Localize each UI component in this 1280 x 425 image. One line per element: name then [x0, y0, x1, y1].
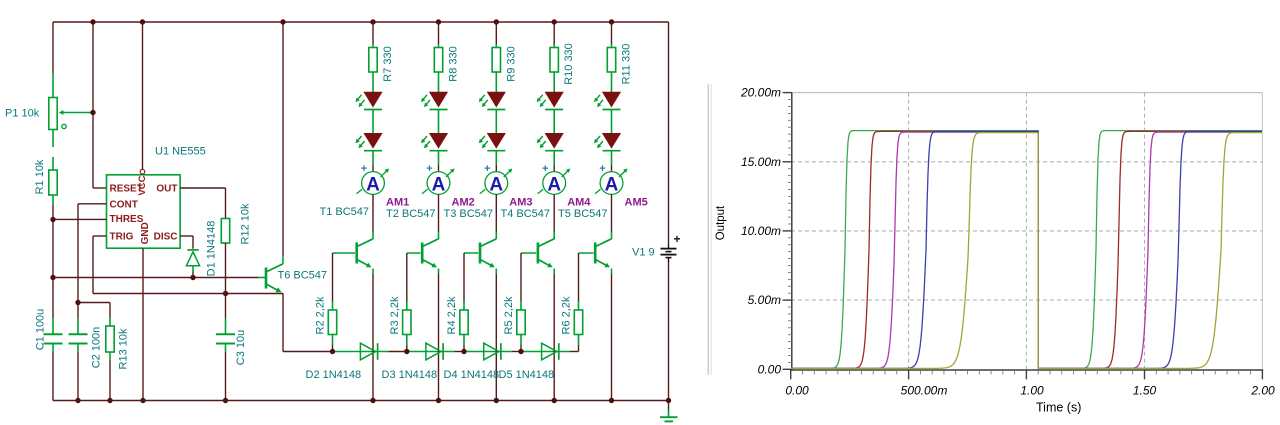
- wire C2 node to R13: [78, 303, 110, 327]
- junction dot top rail column 2: [436, 19, 441, 24]
- diode D1 1N4148: [186, 250, 199, 277]
- resistor R2: [328, 310, 336, 335]
- wire ammeter to T5 collector: [611, 194, 613, 239]
- resistor R4: [460, 310, 468, 335]
- wire DISC pin to D1: [180, 236, 193, 249]
- wire diode row: [283, 351, 579, 353]
- resistor R3: [403, 310, 411, 335]
- junction dot wiper: [90, 110, 95, 115]
- label AM4: [567, 197, 591, 209]
- pin label VCC: [137, 175, 148, 195]
- junction dot diode row R5: [518, 349, 523, 354]
- junction dot diode row R3: [404, 349, 409, 354]
- svg-text:A: A: [547, 174, 561, 195]
- junction dot GND bottom: [140, 398, 145, 403]
- junction dot bottom rail column 2: [436, 398, 441, 403]
- svg-text:AM3: AM3: [509, 197, 532, 209]
- label D2 1N4148: [306, 369, 362, 381]
- wire left rail down to P1: [52, 22, 54, 98]
- svg-text:15.00m: 15.00m: [741, 155, 781, 169]
- label D3 1N4148: [382, 369, 438, 381]
- svg-text:CONT: CONT: [110, 199, 138, 210]
- chart y-axis labels: [740, 86, 781, 377]
- chart axes and ticks: [783, 93, 1264, 380]
- ammeter AM1: [357, 163, 390, 195]
- label R13 10k: [118, 328, 130, 369]
- svg-text:R7 330: R7 330: [382, 46, 394, 81]
- transistor T1 BC547: [355, 239, 373, 267]
- svg-text:A: A: [432, 174, 446, 195]
- wire R11 to LED: [611, 72, 613, 92]
- svg-text:D2 1N4148: D2 1N4148: [306, 369, 362, 381]
- wire R8 to LED: [438, 72, 440, 92]
- transistor T5 BC547: [594, 239, 612, 267]
- pin label TRIG: [110, 231, 134, 242]
- svg-text:0.00: 0.00: [785, 384, 809, 398]
- LED column 4 lower: [537, 134, 564, 151]
- wire R4 to diode row: [463, 335, 465, 352]
- svg-text:D4 1N4148: D4 1N4148: [444, 369, 500, 381]
- wire LED to ammeter column 1: [372, 151, 374, 172]
- junction dot top rail x93: [90, 19, 95, 24]
- wire node A to T6 base: [53, 277, 266, 279]
- pin label OUT: [156, 184, 177, 195]
- wire OUT pin to R12: [180, 188, 225, 219]
- wire LED to ammeter column 2: [438, 151, 440, 172]
- label T1 BC547: [320, 206, 370, 218]
- svg-text:U1 NE555: U1 NE555: [155, 146, 206, 158]
- svg-text:AM4: AM4: [567, 197, 591, 209]
- wire RESET pin: [93, 187, 107, 189]
- wire R13 to bottom rail: [109, 352, 111, 401]
- trace output olive: [791, 133, 1262, 369]
- label R9 330: [505, 46, 517, 81]
- svg-text:R12 10k: R12 10k: [240, 203, 252, 244]
- trace output green: [791, 131, 1262, 369]
- svg-text:A: A: [489, 174, 503, 195]
- svg-text:OUT: OUT: [156, 184, 177, 195]
- label U1 NE555: [155, 146, 206, 158]
- wire R2 to diode row: [332, 335, 334, 352]
- wire R1 to THRES junction: [52, 195, 54, 220]
- label R2 2,2k: [315, 296, 327, 334]
- LED column 4 upper: [537, 92, 564, 109]
- wire T3 base: [464, 252, 478, 254]
- svg-text:D5 1N4148: D5 1N4148: [499, 369, 555, 381]
- svg-text:Time (s): Time (s): [1036, 401, 1081, 415]
- potentiometer P1: [49, 98, 91, 130]
- label V1 9: [632, 247, 655, 259]
- junction dot diode row R2: [330, 349, 335, 354]
- svg-text:0.00: 0.00: [758, 362, 782, 376]
- wire C2 to bottom rail: [77, 352, 79, 401]
- ammeter AM4: [538, 163, 571, 195]
- LED column 2 lower: [421, 134, 448, 151]
- capacitor C3 10u: [216, 294, 235, 353]
- label T2 BC547: [386, 208, 436, 220]
- wire R5 to diode row: [520, 335, 522, 352]
- pin label RESET: [110, 184, 143, 195]
- svg-text:R6 2,2k: R6 2,2k: [561, 296, 573, 334]
- resistor R8: [434, 48, 442, 73]
- svg-text:2.00: 2.00: [1250, 384, 1275, 398]
- svg-text:A: A: [366, 174, 380, 195]
- wire LED link column 2: [438, 110, 440, 134]
- resistor R1: [49, 170, 57, 195]
- svg-text:T5 BC547: T5 BC547: [558, 208, 608, 220]
- wire R7 to LED: [372, 72, 374, 92]
- svg-text:+: +: [673, 232, 680, 246]
- svg-text:R9 330: R9 330: [505, 46, 517, 81]
- wire T3 emitter down: [495, 269, 497, 401]
- label R12 10k: [240, 203, 252, 244]
- svg-text:AM5: AM5: [625, 197, 648, 209]
- capacitor C2 100n: [69, 303, 88, 353]
- resistor R5: [517, 310, 525, 335]
- label T3 BC547: [444, 208, 494, 220]
- label R10 330: [563, 43, 575, 85]
- wire top supply rail: [53, 21, 669, 23]
- svg-text:AM2: AM2: [452, 197, 475, 209]
- wire LED link column 4: [553, 110, 555, 134]
- wire T2 base: [407, 252, 421, 254]
- junction dot bottom rail column 3: [494, 398, 499, 403]
- label R11 330: [621, 44, 633, 85]
- trace output blue: [791, 132, 1262, 369]
- wire LED link column 5: [611, 110, 613, 134]
- chart x-axis labels: [785, 384, 1275, 398]
- svg-text:+: +: [599, 163, 605, 175]
- wire LED to ammeter column 3: [495, 151, 497, 172]
- wire R3 to diode row: [406, 335, 408, 352]
- svg-text:500.00m: 500.00m: [901, 384, 948, 398]
- resistor R13: [106, 326, 114, 352]
- svg-text:C3 10u: C3 10u: [235, 330, 247, 365]
- wire battery to bottom rail: [668, 258, 670, 401]
- wire LED to ammeter column 5: [611, 151, 613, 172]
- wire CONT pin to C2: [78, 204, 107, 303]
- junction dot top rail column 1: [370, 19, 375, 24]
- wire base to R5: [520, 253, 522, 310]
- diode D3 1N4148: [426, 343, 443, 360]
- label D1 1N4148: [206, 221, 218, 277]
- wire base to R4: [463, 253, 465, 310]
- wire T6 collector up: [282, 22, 284, 264]
- wire LED link column 1: [372, 110, 374, 134]
- svg-text:10.00m: 10.00m: [741, 224, 781, 238]
- label C2 100n: [91, 327, 103, 369]
- transistor T2 BC547: [421, 239, 439, 267]
- svg-text:R11 330: R11 330: [621, 44, 633, 85]
- svg-text:R2 2,2k: R2 2,2k: [315, 296, 327, 334]
- LED column 1 lower: [356, 134, 383, 151]
- wire T1 base: [333, 252, 356, 254]
- svg-text:T4 BC547: T4 BC547: [501, 208, 551, 220]
- svg-text:+: +: [542, 163, 548, 175]
- junction dot bottom rail column 5: [609, 398, 614, 403]
- label C3 10u: [235, 330, 247, 365]
- svg-text:5.00m: 5.00m: [748, 293, 781, 307]
- wire R6 to diode row corner: [578, 335, 580, 352]
- pin label GND: [140, 222, 151, 244]
- svg-text:Output: Output: [715, 205, 727, 240]
- label AM1: [386, 197, 409, 209]
- junction dot bottom rail column 1: [370, 398, 375, 403]
- trace output magenta: [791, 132, 1262, 368]
- svg-text:R3 2,2k: R3 2,2k: [389, 296, 401, 334]
- wire R9 to LED: [495, 72, 497, 92]
- transistor T6 BC547: [265, 264, 283, 293]
- wire base to R2: [332, 253, 334, 310]
- label R4 2,2k: [446, 296, 458, 334]
- diode D4 1N4148: [484, 343, 501, 360]
- resistor R11: [607, 48, 615, 73]
- pin label THRES: [110, 214, 144, 225]
- battery V1 9: [661, 232, 681, 258]
- wire base to R3: [406, 253, 408, 310]
- diode D2 1N4148: [360, 343, 377, 360]
- svg-text:P1 10k: P1 10k: [5, 108, 40, 120]
- svg-text:20.00m: 20.00m: [740, 86, 781, 100]
- svg-text:R13 10k: R13 10k: [118, 328, 130, 369]
- LED column 5 upper: [594, 92, 621, 109]
- junction dot node A left: [50, 275, 55, 280]
- label R6 2,2k: [561, 296, 573, 334]
- wire THRES pin: [53, 218, 107, 220]
- junction dot diode row R4: [461, 349, 466, 354]
- svg-text:THRES: THRES: [110, 214, 144, 225]
- LED column 3 upper: [479, 92, 506, 109]
- svg-text:TRIG: TRIG: [110, 231, 134, 242]
- resistor R9: [492, 48, 500, 73]
- label R8 330: [448, 46, 460, 81]
- wire T2 emitter down: [438, 269, 440, 401]
- junction dot battery bottom: [666, 398, 671, 403]
- wire ammeter to T1 collector: [372, 194, 374, 239]
- wire rail to R7: [372, 22, 374, 48]
- wire T1 emitter down: [372, 269, 374, 401]
- svg-text:R5 2,2k: R5 2,2k: [503, 296, 515, 334]
- LED column 2 upper: [421, 92, 448, 109]
- junction dot node B R12: [223, 291, 228, 296]
- LED column 3 lower: [479, 134, 506, 151]
- resistor R10: [550, 48, 558, 73]
- junction dot THRES: [50, 217, 55, 222]
- svg-text:DISC: DISC: [154, 231, 178, 242]
- wire T5 emitter down: [611, 269, 613, 401]
- wire rail to R9: [495, 22, 497, 48]
- diode D5 1N4148: [542, 343, 559, 360]
- junction dot top rail x142: [140, 19, 145, 24]
- junction dot bottom rail column 4: [552, 398, 557, 403]
- junction dot node A D1: [190, 275, 195, 280]
- svg-text:R4 2,2k: R4 2,2k: [446, 296, 458, 334]
- wire THRES junction down to C1: [52, 220, 54, 335]
- resistor R6: [574, 310, 582, 335]
- label AM2: [452, 197, 475, 209]
- wire T4 emitter down: [553, 269, 555, 401]
- LED column 5 lower: [594, 134, 621, 151]
- svg-text:AM1: AM1: [386, 197, 409, 209]
- label C1 100u: [35, 309, 47, 351]
- wire TRIG pin down: [93, 236, 107, 294]
- svg-text:C2 100n: C2 100n: [91, 327, 103, 369]
- ammeter AM2: [422, 163, 455, 195]
- wire GND pin to bottom rail: [142, 248, 144, 400]
- wire R10 to LED: [553, 72, 555, 92]
- chart y-axis title: [715, 205, 727, 240]
- resistor R12: [221, 219, 229, 244]
- svg-text:D3 1N4148: D3 1N4148: [382, 369, 438, 381]
- svg-text:R10 330: R10 330: [563, 43, 575, 85]
- label R3 2,2k: [389, 296, 401, 334]
- label D5 1N4148: [499, 369, 555, 381]
- label R5 2,2k: [503, 296, 515, 334]
- wire rail to R11: [611, 22, 613, 48]
- wire rail to R10: [553, 22, 555, 48]
- junction dot C2 bottom: [75, 398, 80, 403]
- op-amp U1 NE555 box: [107, 169, 181, 248]
- wire ammeter to T2 collector: [438, 194, 440, 239]
- svg-text:D1 1N4148: D1 1N4148: [206, 221, 218, 277]
- wire rail to R8: [438, 22, 440, 48]
- transistor T3 BC547: [479, 239, 497, 267]
- label T4 BC547: [501, 208, 551, 220]
- wire ammeter to T3 collector: [495, 194, 497, 239]
- svg-text:T3 BC547: T3 BC547: [444, 208, 494, 220]
- transistor T4 BC547: [537, 239, 555, 267]
- junction dot top rail T6: [280, 19, 285, 24]
- svg-text:R8 330: R8 330: [448, 46, 460, 81]
- svg-text:T6 BC547: T6 BC547: [278, 270, 328, 282]
- wire bottom ground rail: [53, 400, 669, 402]
- wire T6 emitter down: [282, 294, 284, 352]
- LED column 1 upper: [356, 92, 383, 109]
- pin label CONT: [110, 199, 138, 210]
- label AM5: [625, 197, 648, 209]
- capacitor C1 100u: [44, 334, 63, 352]
- wire R12 to node B: [225, 243, 227, 294]
- svg-text:GND: GND: [140, 222, 151, 244]
- svg-text:A: A: [605, 174, 619, 195]
- junction dot top rail column 5: [609, 19, 614, 24]
- ammeter AM3: [480, 163, 513, 195]
- junction dot R13 bottom: [107, 398, 112, 403]
- trace output red: [791, 131, 1262, 368]
- svg-text:VCC: VCC: [137, 175, 148, 195]
- label R7 330: [382, 46, 394, 81]
- svg-text:T1 BC547: T1 BC547: [320, 206, 370, 218]
- wire pot wiper vertical: [92, 22, 94, 188]
- wire C1 to bottom rail: [52, 352, 54, 401]
- panel divider: [708, 84, 711, 375]
- wire T4 base: [521, 252, 536, 254]
- svg-text:+: +: [426, 163, 432, 175]
- label D4 1N4148: [444, 369, 500, 381]
- wire P1 to R1: [52, 130, 54, 171]
- svg-text:1.00: 1.00: [1020, 384, 1044, 398]
- svg-text:T2 BC547: T2 BC547: [386, 208, 436, 220]
- label T6 BC547: [278, 270, 328, 282]
- svg-text:V1 9: V1 9: [632, 247, 655, 259]
- wire ammeter to T4 collector: [553, 194, 555, 239]
- label AM3: [509, 197, 532, 209]
- label T5 BC547: [558, 208, 608, 220]
- wire T5 base: [579, 252, 594, 254]
- svg-text:R1 10k: R1 10k: [34, 159, 46, 194]
- resistor R7: [369, 48, 377, 73]
- label P1 10k: [5, 108, 40, 120]
- svg-text:1.50: 1.50: [1133, 384, 1157, 398]
- ammeter AM5: [595, 163, 628, 195]
- svg-text:+: +: [484, 163, 490, 175]
- svg-text:C1 100u: C1 100u: [35, 309, 47, 351]
- wire rail to battery V1: [668, 22, 670, 248]
- junction dot top rail column 4: [552, 19, 557, 24]
- wire LED link column 3: [495, 110, 497, 134]
- label R1 10k: [34, 159, 46, 194]
- wire LED to ammeter column 4: [553, 151, 555, 172]
- wire node B TRIG to emitter: [93, 293, 283, 295]
- wire base to R6: [578, 253, 580, 310]
- svg-text:+: +: [361, 163, 367, 175]
- chart x-axis title: [1036, 401, 1081, 415]
- pin label DISC: [154, 231, 178, 242]
- chart gridlines: [791, 93, 1262, 370]
- junction dot C3 bottom: [223, 398, 228, 403]
- junction dot C2 top: [75, 300, 80, 305]
- wire VCC pin from rail: [142, 22, 144, 170]
- junction dot top rail column 3: [494, 19, 499, 24]
- wire C3 to bottom rail: [225, 352, 227, 401]
- ground: [660, 401, 678, 422]
